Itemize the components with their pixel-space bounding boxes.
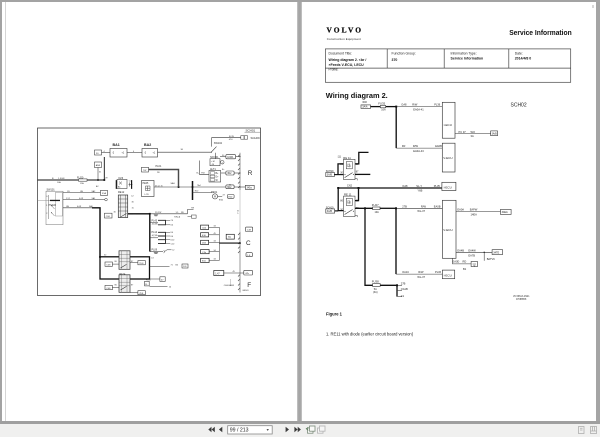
wire SW101 out row2 (63, 199, 105, 201)
svg-text:16A: 16A (381, 109, 386, 112)
wire trunk to I-ECU3 pin PL36 (396, 273, 442, 275)
svg-text:1. RE11 with diode (earlier ci: 1. RE11 with diode (earlier circuit boar… (326, 332, 414, 337)
svg-text:EA0A-41: EA0A-41 (413, 107, 424, 111)
svg-text:34EA: 34EA (502, 211, 508, 214)
wire BA2 to SW102 (158, 151, 212, 153)
svg-text:PL35: PL35 (434, 184, 441, 188)
node 1FW1 box (226, 155, 236, 159)
svg-text:(3A): (3A) (373, 291, 378, 294)
svg-text:B+: B+ (216, 173, 220, 175)
svg-text:7W: 7W (191, 207, 194, 209)
svg-text:Construction Equipment: Construction Equipment (327, 37, 361, 41)
fuse FU38 (372, 279, 380, 294)
svg-text:PL14: PL14 (152, 231, 158, 234)
svg-text:EAPW: EAPW (470, 207, 478, 211)
svg-text:6N2: 6N2 (227, 187, 232, 189)
connector PL43 (149, 214, 151, 252)
svg-text:EA0A: EA0A (457, 207, 464, 211)
svg-text:30: 30 (104, 254, 107, 256)
wire bus to RE01 (193, 191, 213, 193)
svg-text:-2: -2 (112, 152, 115, 155)
svg-text:SA3: SA3 (171, 182, 176, 185)
svg-text:Profile:: Profile: (329, 68, 339, 72)
wire junction to I-ECU pin PL36 (396, 106, 442, 108)
svg-text:45 (2, 3): 45 (2, 3) (155, 185, 163, 187)
svg-text:A2: A2 (96, 185, 99, 188)
svg-text:30/F: 30/F (362, 101, 367, 104)
node SCH09 ref boxes (241, 136, 244, 140)
page divider (297, 2, 302, 421)
svg-text:30: 30 (114, 212, 117, 214)
svg-text:OA8: OA8 (401, 103, 407, 107)
svg-text:15: 15 (132, 208, 135, 210)
svg-text:V-ECU: V-ECU (443, 156, 452, 160)
wire D26 frame thick (116, 180, 131, 189)
right page (302, 2, 597, 421)
svg-text:3A/B: 3A/B (492, 132, 498, 135)
last page button (294, 427, 301, 432)
svg-text:[1]: [1] (338, 154, 341, 158)
window left border (0, 2, 2, 421)
svg-text:L2: L2 (172, 250, 175, 252)
main trunk down (395, 106, 397, 148)
svg-text:V-ECU: V-ECU (443, 228, 452, 232)
svg-text:OA1B: OA1B (401, 287, 408, 291)
schematic frame (38, 128, 261, 296)
svg-text:AN8: AN8 (96, 164, 101, 167)
junction dots (337, 106, 485, 287)
wire mid bus to 6N2 (193, 186, 226, 188)
wire BA1 to BA2 (127, 152, 142, 154)
svg-text:21B: 21B (202, 243, 206, 245)
previous view icon (306, 426, 315, 433)
svg-text:OA8: OA8 (402, 184, 408, 188)
coil with diode (346, 162, 352, 169)
svg-text:4.0R: 4.0R (77, 206, 82, 208)
svg-text:30: 30 (181, 149, 184, 151)
relay RE11 (1) earlier version (338, 154, 359, 179)
busbar comb lower (238, 232, 240, 293)
svg-text:34TE: 34TE (493, 251, 499, 254)
svg-text:4.0R: 4.0R (79, 198, 84, 200)
svg-text:A1: A1 (118, 185, 121, 188)
svg-text:99 / 213: 99 / 213 (230, 428, 249, 434)
svg-text:27B: 27B (402, 204, 407, 208)
wire V-ECU2 bottom out to ground box (453, 258, 472, 264)
svg-text:C10: C10 (171, 243, 176, 245)
node C08 box (105, 262, 112, 266)
wire CN2 bus to I-ECU pin PL35 (338, 187, 442, 189)
svg-text:D+: D+ (216, 176, 220, 178)
node FIA box (101, 190, 108, 195)
svg-text:OA1C: OA1C (402, 270, 409, 274)
svg-text:370: 370 (392, 58, 398, 62)
svg-text:Service Information: Service Information (451, 57, 484, 61)
svg-text:3A/A: 3A/A (362, 106, 368, 109)
svg-text:PL36: PL36 (435, 270, 442, 274)
svg-text:»Feeds V-ECU, I-ECU: »Feeds V-ECU, I-ECU (329, 63, 365, 67)
heater HE05 (142, 181, 155, 197)
svg-text:87: 87 (356, 171, 359, 173)
svg-text:WL-37: WL-37 (417, 275, 425, 279)
svg-text:07088558: 07088558 (516, 299, 527, 301)
svg-text:C06: C06 (106, 216, 111, 218)
svg-text:PL36: PL36 (434, 103, 441, 107)
svg-text:47: 47 (161, 279, 164, 281)
node 34EA ref box (501, 209, 512, 214)
wire box2 to relay2 (335, 210, 339, 212)
svg-text:V0-56613-2/921: V0-56613-2/921 (513, 296, 530, 298)
svg-text:I-ECU: I-ECU (444, 185, 452, 189)
svg-text:C2: C2 (131, 196, 134, 198)
node AN8 box (95, 162, 102, 168)
svg-text:SCH01: SCH01 (246, 128, 256, 132)
wire SW101 out row3 thick (63, 207, 100, 209)
node 345a box (245, 185, 254, 189)
node C06 box (105, 213, 113, 218)
wire SW102 down to MO301 (215, 153, 217, 159)
wire CN2 left drop to relay2 (338, 188, 343, 211)
toolbar (0, 424, 600, 437)
relay RE11 second (340, 192, 359, 216)
svg-text:F: F (247, 282, 251, 289)
svg-text:B5: B5 (176, 265, 179, 267)
svg-text:C1: C1 (401, 294, 405, 298)
svg-text:SCH02: SCH02 (511, 102, 527, 108)
wire relay1 86 down to 30 feed (338, 164, 344, 175)
svg-text:LCD: LCD (145, 194, 150, 196)
svg-text:EA0B: EA0B (435, 144, 442, 148)
svg-text:FU38: FU38 (372, 279, 379, 283)
svg-text:PL01: PL01 (156, 165, 162, 168)
wire thick drop left trunk (92, 208, 100, 258)
wire feed to BA1 (102, 152, 111, 154)
svg-text:FU35: FU35 (378, 101, 385, 105)
trunk junction2 down to I-ECU3 wire (395, 208, 397, 274)
svg-text:B1: B1 (463, 267, 467, 271)
node 30/F feed box (361, 101, 371, 109)
svg-text:Information Type:: Information Type: (451, 52, 477, 56)
svg-text:FU27: FU27 (372, 203, 379, 207)
ecu V-ECU U4 (442, 200, 456, 258)
window top border (0, 0, 600, 2)
svg-text:B+: B+ (222, 169, 225, 171)
wire stub OA1B (397, 289, 402, 291)
svg-text:Wiring diagram 2.: Wiring diagram 2. (326, 91, 388, 100)
svg-text:SL-Y: SL-Y (416, 184, 422, 188)
svg-text:-2: -2 (144, 152, 147, 155)
wire FU27 to junction2 (380, 207, 396, 209)
svg-text:47: 47 (223, 195, 226, 197)
next page button (286, 427, 289, 432)
contact (345, 173, 353, 178)
prev page button (219, 427, 222, 432)
svg-text:EA4W: EA4W (468, 249, 476, 253)
wire HE05 right (154, 186, 193, 188)
svg-text:R: R (248, 170, 253, 177)
svg-text:+1: +1 (122, 152, 125, 155)
svg-text:1.5Y: 1.5Y (66, 198, 71, 200)
svg-text:EA4B: EA4B (457, 249, 464, 253)
wire BATV6 drop (483, 252, 485, 260)
wire collector to busbar thick (219, 242, 240, 244)
wire 6N2 to 345a (234, 186, 245, 188)
wire box to relay1 pin30 (334, 174, 343, 176)
next view icon disabled (318, 426, 326, 433)
svg-text:1.47: 1.47 (215, 273, 220, 275)
svg-text:Y6B: Y6B (417, 188, 422, 192)
wire relay1 85 stub (355, 179, 357, 181)
wire stub C1 (397, 295, 402, 297)
node 30 feed box (95, 150, 102, 155)
svg-text:31: 31 (99, 172, 102, 174)
wire loop out row3 (150, 285, 168, 287)
svg-text:3A/B: 3A/B (327, 174, 333, 177)
node 47 small box (160, 277, 165, 282)
svg-text:BA2: BA2 (144, 143, 151, 147)
left page edge line (5, 2, 6, 421)
svg-text:1FW1: 1FW1 (227, 157, 234, 159)
wire RE12 to label box (150, 213, 188, 215)
svg-text:RE 11: RE 11 (344, 192, 352, 196)
svg-text:Service Information: Service Information (509, 28, 572, 37)
node 1.48 box (246, 227, 253, 231)
svg-text:WL-37: WL-37 (417, 209, 425, 213)
node 3N2 box (226, 171, 234, 175)
svg-text:4(C)7A: 4(C)7A (152, 234, 158, 237)
wire main horizontal feed (38, 179, 105, 181)
svg-text:Figure 1: Figure 1 (326, 312, 343, 317)
svg-text:3A: 3A (471, 134, 474, 138)
wire RE12 out bus thick (128, 213, 150, 215)
svg-text:D6: D6 (171, 236, 174, 238)
svg-text:D4: D4 (171, 232, 174, 234)
wire loop out row1 (150, 266, 170, 268)
ground box (471, 262, 477, 267)
fuse FU27 (372, 203, 380, 214)
node 7C box (226, 234, 234, 239)
svg-text:14EA: 14EA (471, 212, 478, 216)
svg-text:30: 30 (132, 202, 135, 204)
window right border (596, 0, 600, 421)
svg-text:W: W (216, 180, 219, 182)
node 1.8 box (246, 253, 252, 257)
svg-text:BA1: BA1 (113, 143, 120, 147)
wire trunk to V-ECU pin EA0B (396, 147, 442, 149)
busbar comb upper (238, 153, 240, 190)
junction dots left (97, 179, 241, 258)
wire CN2 right drop to relay2 85 (355, 188, 359, 201)
node 3A ref box (491, 131, 498, 136)
svg-text:SL/W: SL/W (229, 136, 234, 138)
node SCH19 feed box relay2 (326, 207, 335, 214)
svg-text:30: 30 (96, 153, 99, 155)
fuse FL38 (145, 281, 150, 286)
svg-text:C04/04A/B3: C04/04A/B3 (224, 284, 234, 287)
page number input (228, 426, 273, 434)
svg-text:- M: - M (211, 164, 214, 166)
svg-text:Document Title:: Document Title: (329, 52, 353, 56)
bottom separator line (0, 421, 600, 424)
wire I-ECU out PC37 (455, 133, 491, 135)
svg-text:1.5GN: 1.5GN (58, 178, 65, 180)
svg-text:FR: FR (402, 144, 406, 148)
svg-text:SW101: SW101 (47, 188, 56, 191)
svg-text:Function Group:: Function Group: (392, 52, 416, 56)
svg-text:86: 86 (115, 285, 118, 287)
document table (325, 49, 570, 82)
wire branch down to FU38 (365, 208, 373, 285)
wire big loop rectangle (100, 257, 150, 279)
svg-text:86: 86 (340, 201, 343, 203)
svg-text:7C: 7C (228, 237, 231, 239)
svg-text:RD: RD (463, 259, 467, 263)
svg-text:R/W: R/W (421, 204, 427, 208)
node C08 box 2 (105, 285, 112, 289)
node SCH19 feed box relay1 (326, 170, 335, 177)
svg-text:C3: C3 (151, 257, 154, 259)
svg-text:C: C (246, 240, 251, 247)
node 7D8 box (138, 291, 145, 295)
svg-text:2014/4/8 0: 2014/4/8 0 (515, 57, 532, 61)
wire relay1 87 out (355, 173, 370, 175)
node 1.47 box (214, 271, 224, 276)
svg-text:EA0D: EA0D (453, 259, 460, 263)
svg-text:+ M: + M (211, 161, 215, 163)
node 6N2 box (226, 185, 234, 189)
wire B+ feed left (199, 161, 209, 175)
svg-text:3A/B: 3A/B (327, 210, 333, 213)
svg-text:5: 5 (237, 213, 239, 215)
svg-text:Date:: Date: (515, 52, 523, 56)
svg-text:I-ECU: I-ECU (444, 273, 452, 277)
svg-text:TW(-3): TW(-3) (174, 217, 181, 219)
svg-text:4(C)7A: 4(C)7A (152, 223, 158, 226)
wire BA drop (103, 157, 105, 180)
svg-text:PL/PW: PL/PW (155, 212, 161, 214)
svg-text:345a: 345a (247, 188, 253, 190)
wire junction2 to V-ECU2 pin EA0B (396, 207, 442, 209)
svg-text:EA0B: EA0B (434, 204, 441, 208)
svg-text:27B: 27B (401, 281, 406, 285)
wire AN8 drop to main feed (97, 168, 99, 181)
svg-text:10A: 10A (375, 211, 380, 214)
wire relay1 coil 85 up stub (355, 152, 369, 164)
svg-text:GND01: GND01 (242, 290, 248, 292)
svg-text:10: 10 (169, 286, 172, 288)
wire FU35 to junction (386, 106, 397, 108)
ecu I-ECU U3 (442, 182, 456, 190)
svg-text:PL09: PL09 (152, 249, 158, 252)
node TD8 box (138, 261, 145, 265)
svg-text:F1A: F1A (102, 192, 107, 195)
wire MO301 to comb (220, 156, 226, 158)
svg-text:D10: D10 (171, 240, 176, 242)
svg-text:CN2: CN2 (347, 184, 353, 188)
svg-text:WO: WO (471, 130, 475, 134)
svg-text:2: 2 (46, 213, 48, 215)
svg-text:R/W: R/W (412, 103, 418, 107)
svg-text:BATV6: BATV6 (487, 257, 496, 261)
wire mid vertical bus thick (192, 181, 194, 200)
busbar thin mid segment (239, 190, 241, 232)
svg-text:4/10: 4/10 (229, 139, 234, 141)
svg-text:RE12: RE12 (118, 191, 125, 194)
ecu I-ECU U5 (442, 270, 454, 279)
svg-text:3N2: 3N2 (227, 173, 232, 175)
node 47b box (244, 270, 253, 275)
node 7W box (142, 167, 149, 172)
first page button (208, 427, 215, 432)
wire relay2 87 to FU27 (355, 207, 373, 209)
svg-text:87: 87 (131, 285, 134, 287)
svg-text:I-ECU: I-ECU (444, 123, 452, 127)
status icons right (579, 427, 597, 434)
fuse FU35 (378, 101, 386, 111)
wire relay2 85 stub (355, 215, 357, 217)
svg-text:PC 37: PC 37 (459, 130, 467, 134)
svg-text:2B: 2B (157, 172, 160, 174)
wire stub 27B (397, 284, 402, 286)
svg-text:+1: +1 (153, 152, 156, 155)
wire ALT1 to comb (221, 172, 226, 174)
svg-text:C4: C4 (171, 220, 174, 222)
svg-text:86: 86 (115, 261, 118, 263)
svg-text:VOLVO: VOLVO (327, 26, 364, 35)
node column boxes with collector (201, 225, 220, 263)
extra wire labels (96, 139, 233, 286)
op I-ECU U1 (442, 102, 455, 138)
wire V-ECU2 out EA4B to 34TE (456, 251, 492, 253)
svg-text:SW102: SW102 (214, 142, 223, 145)
svg-text:R/W: R/W (418, 270, 424, 274)
svg-text:EA7B: EA7B (468, 254, 475, 258)
svg-text:EA0A-43: EA0A-43 (413, 149, 424, 153)
svg-text:0: 0 (46, 196, 48, 198)
left page (2, 2, 297, 421)
wire collector vertical (218, 227, 220, 260)
wire feed to FU35 (371, 106, 381, 108)
svg-text:D4: D4 (171, 225, 174, 227)
node 34TE ref box (492, 250, 503, 255)
svg-text:B: B (237, 211, 239, 213)
svg-text:71: 71 (171, 265, 174, 267)
svg-text:E/02: E/02 (219, 200, 224, 202)
wire V-ECU2 out EA0A to 34EA (456, 211, 501, 213)
ecu V-ECU U2 (442, 143, 455, 172)
svg-text:15A: 15A (80, 182, 84, 185)
wire FU38 to stub bus (380, 284, 397, 286)
svg-text:PL43: PL43 (152, 219, 158, 222)
svg-text:7W: 7W (143, 170, 147, 172)
svg-text:10A: 10A (57, 181, 61, 184)
svg-text:SCH09: SCH09 (251, 136, 260, 140)
wire SW101 out row1 (63, 192, 101, 194)
node stub bus (396, 285, 398, 297)
svg-text:R/W: R/W (413, 144, 419, 148)
svg-text:HE05: HE05 (143, 183, 149, 185)
svg-text:Wiring diagram 2. <br /: Wiring diagram 2. <br / (329, 58, 367, 62)
